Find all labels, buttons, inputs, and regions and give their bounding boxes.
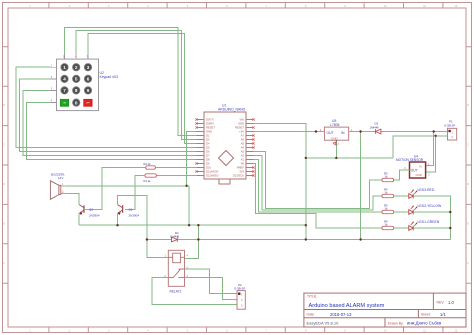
svg-text:Arduino based ALARM system: Arduino based ALARM system xyxy=(309,303,385,309)
svg-text:D4: D4 xyxy=(206,142,210,146)
svg-text:9: 9 xyxy=(87,88,90,93)
svg-text:1N4448: 1N4448 xyxy=(170,234,180,238)
resistor R6 xyxy=(382,219,394,229)
svg-text:D6: D6 xyxy=(206,150,210,154)
svg-text:LED3-RED: LED3-RED xyxy=(418,188,435,192)
svg-text:Sheet:: Sheet: xyxy=(421,313,431,317)
svg-text:A3: A3 xyxy=(241,150,245,154)
svg-text:IN: IN xyxy=(341,131,345,135)
svg-text:12V: 12V xyxy=(58,176,63,180)
wire ground link horizontal xyxy=(306,157,393,159)
connector P2 xyxy=(234,283,245,309)
svg-text:5: 5 xyxy=(75,77,78,82)
svg-text:3: 3 xyxy=(87,65,90,70)
svg-text:1N4448: 1N4448 xyxy=(370,125,380,129)
svg-text:D5: D5 xyxy=(206,146,210,150)
svg-text:GND: GND xyxy=(238,122,244,126)
wire line B (GND/return bus) xyxy=(147,239,450,241)
svg-text:RELAY1: RELAY1 xyxy=(170,289,182,293)
LED3 RED xyxy=(409,190,418,199)
wire relay pin4 vertical (rail to line B to relay) xyxy=(185,225,199,258)
svg-text:Drawn By:: Drawn By: xyxy=(388,321,404,325)
svg-text:AREF: AREF xyxy=(237,166,245,170)
svg-text:RESET: RESET xyxy=(206,126,215,130)
svg-text:A0: A0 xyxy=(241,162,245,166)
LED1 GREEN xyxy=(409,222,418,231)
resistor R2 xyxy=(144,162,156,169)
Arduino pin names xyxy=(206,118,219,178)
svg-text:A1: A1 xyxy=(241,158,245,162)
svg-text:инж.Дянчо Събев: инж.Дянчо Събев xyxy=(407,321,442,326)
wire relay pin3 to P2 pin2 xyxy=(185,278,238,300)
connector P1 xyxy=(444,120,457,140)
svg-text:8: 8 xyxy=(75,88,78,93)
svg-text:3V3: 3V3 xyxy=(239,170,244,174)
resistor R4 xyxy=(382,187,394,197)
svg-text:LED1-GREEN: LED1-GREEN xyxy=(418,220,440,224)
wire keypad col3 to D4 xyxy=(88,34,197,144)
svg-text:0: 0 xyxy=(75,100,78,105)
svg-text:S-3B-2P: S-3B-2P xyxy=(444,123,455,127)
title block text xyxy=(307,295,445,326)
svg-text:2: 2 xyxy=(75,65,78,70)
microcontroller U1 ARDUINO_NANO xyxy=(204,104,246,185)
ground pin + flag of U5 xyxy=(333,140,339,146)
svg-text:D3: D3 xyxy=(206,138,210,142)
regulator U5 L7805 xyxy=(320,119,353,141)
wire A3 to R3 xyxy=(254,152,383,209)
wire keypad row4 to D8 xyxy=(27,102,197,159)
motion sensor U4 xyxy=(396,154,430,178)
svg-text:D: D xyxy=(467,183,469,186)
wire GND rail xyxy=(79,224,306,226)
svg-text:1/1: 1/1 xyxy=(440,312,446,317)
svg-text:D2: D2 xyxy=(375,122,379,126)
relay RELAY1 xyxy=(165,250,189,293)
svg-text:D0/TX: D0/TX xyxy=(206,118,214,122)
wire GND to motion sensor GND xyxy=(426,136,436,172)
svg-text:A6: A6 xyxy=(241,138,245,142)
wire D12 to R1 xyxy=(156,175,196,177)
svg-text:1.0: 1.0 xyxy=(448,300,454,305)
svg-text:+5V: +5V xyxy=(239,130,244,134)
wire R2 to Q2 base xyxy=(85,168,146,210)
transistor Q1 xyxy=(118,205,140,218)
svg-text:GND: GND xyxy=(206,130,212,134)
wire relay pin2 to P2 pin3 xyxy=(152,278,237,305)
svg-text:LED2-YELLOW: LED2-YELLOW xyxy=(418,204,443,208)
wire R4 to LED3 xyxy=(394,195,409,197)
svg-text:Q1: Q1 xyxy=(129,208,133,212)
svg-text:D9: D9 xyxy=(206,162,210,166)
junction dots xyxy=(116,130,451,240)
svg-text:L7805: L7805 xyxy=(330,123,340,127)
svg-text:TITLE:: TITLE: xyxy=(307,295,317,299)
svg-text:GND: GND xyxy=(331,137,339,141)
buzzer BUZZER1 xyxy=(50,173,65,200)
wire R1 to Q1 base xyxy=(125,176,145,210)
svg-text:S-3B-3P: S-3B-3P xyxy=(234,287,245,291)
wire Q1 emitter to rail xyxy=(117,213,119,225)
wire 12V vertical from D2 net down to line B xyxy=(360,132,362,240)
svg-text:MOTION SENSOR: MOTION SENSOR xyxy=(396,158,424,162)
svg-text:D10: D10 xyxy=(206,166,211,170)
svg-text:2N3904: 2N3904 xyxy=(89,214,100,218)
Arduino unconnected pin X marks xyxy=(195,118,254,176)
svg-text:D13/SCK: D13/SCK xyxy=(233,174,244,178)
svg-text:C: C xyxy=(3,144,5,147)
wire A1 to R5 xyxy=(254,160,383,213)
wire U5 GND down to ground link xyxy=(335,146,337,158)
svg-text:ARDUINO_NANO: ARDUINO_NANO xyxy=(218,108,246,112)
wire Arduino GND(right) to ground net vertical xyxy=(254,124,306,240)
wire +5V to L7805 OUT xyxy=(254,131,325,133)
svg-text:OUT: OUT xyxy=(411,168,418,172)
wire keypad col1 to D2 xyxy=(65,27,197,135)
wire Arduino GND(left) down to buzzer/GND net xyxy=(187,132,197,186)
keypad U2 xyxy=(51,55,118,111)
wire 12V to motion sensor 3+ xyxy=(426,132,434,166)
svg-text:D8: D8 xyxy=(206,158,210,162)
resistor R3 xyxy=(382,171,394,181)
svg-text:D: D xyxy=(3,183,5,186)
svg-text:D2: D2 xyxy=(206,134,210,138)
wire buzzer pin1 to GND rail xyxy=(65,186,189,225)
wire U5 IN to D2 to P1 pin1 xyxy=(349,131,448,133)
title block xyxy=(304,293,466,327)
resistor R5 xyxy=(382,203,394,213)
svg-text:D7: D7 xyxy=(206,154,210,158)
wire R5 to LED2 xyxy=(394,211,409,213)
svg-text:D0/RX: D0/RX xyxy=(206,122,214,126)
Arduino pin stubs xyxy=(197,120,254,176)
svg-text:6: 6 xyxy=(87,77,90,82)
wire keypad row3 to D7 xyxy=(23,90,197,155)
svg-text:1: 1 xyxy=(63,65,66,70)
wire Q1 collector up and over to relay/D1 junction xyxy=(118,195,169,257)
svg-text:A5: A5 xyxy=(241,142,245,146)
svg-text:Q2: Q2 xyxy=(89,208,93,212)
svg-text:D11/MOSI: D11/MOSI xyxy=(206,170,219,174)
wire LED return bus xyxy=(414,196,451,240)
wire keypad col2 to D3 xyxy=(76,31,196,140)
svg-text:GND: GND xyxy=(416,173,422,177)
svg-text:VIN: VIN xyxy=(240,118,245,122)
svg-text:Keypad 4X3: Keypad 4X3 xyxy=(100,75,119,79)
svg-text:R1 1k: R1 1k xyxy=(144,179,152,183)
wire A0 to R6 xyxy=(254,164,383,229)
wire sensor OUT to R3 xyxy=(394,170,410,180)
wire R6 to LED1 xyxy=(394,227,409,229)
svg-text:R2 1k: R2 1k xyxy=(144,162,152,166)
svg-text:OUT: OUT xyxy=(327,131,334,135)
LED2 YELLOW xyxy=(409,206,418,215)
wire P1 pin2 to ground link xyxy=(393,136,447,158)
svg-text:A7: A7 xyxy=(241,134,245,138)
svg-text:4: 4 xyxy=(63,77,66,82)
svg-text:EasyEDA V5.8.10: EasyEDA V5.8.10 xyxy=(307,320,340,325)
wire Q2 emitter to rail xyxy=(78,213,80,225)
svg-text:D12/MISO: D12/MISO xyxy=(206,174,219,178)
wire D10 to R2 xyxy=(155,167,196,169)
svg-text:2018-07-13: 2018-07-13 xyxy=(330,312,352,317)
wire keypad row2 to D6 xyxy=(20,79,197,152)
svg-text:A2: A2 xyxy=(241,154,245,158)
wire keypad row1 to D5 xyxy=(16,67,197,147)
svg-text:3+: 3+ xyxy=(419,164,423,168)
resistor R1 xyxy=(144,174,157,183)
transistor Q2 xyxy=(79,205,100,218)
diode D1 xyxy=(170,231,180,242)
svg-text:C: C xyxy=(467,144,469,147)
svg-text:RESET: RESET xyxy=(235,126,244,130)
svg-text:REV:: REV: xyxy=(437,301,445,305)
wire buzzer pin2 to Q2 collector xyxy=(65,193,79,204)
wire A2 to R4 xyxy=(254,156,383,211)
diode D2 xyxy=(370,122,381,134)
svg-text:7: 7 xyxy=(63,88,66,93)
svg-text:A4: A4 xyxy=(241,146,245,150)
wire relay pin5 to P2 pin1 xyxy=(185,269,238,294)
svg-text:2N3904: 2N3904 xyxy=(129,214,140,218)
svg-text:Date:: Date: xyxy=(307,313,315,317)
